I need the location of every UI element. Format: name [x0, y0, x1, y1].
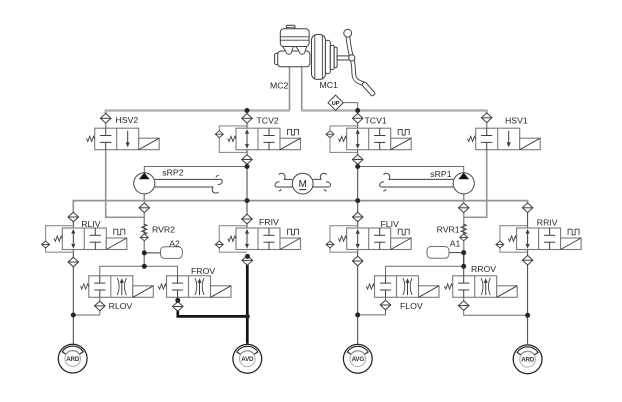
svg-text:M: M [299, 179, 307, 190]
svg-text:ARD: ARD [66, 356, 80, 363]
svg-text:RRIV: RRIV [537, 217, 558, 227]
svg-text:FLIV: FLIV [381, 219, 400, 229]
svg-text:AVG: AVG [352, 356, 365, 363]
svg-text:MC1: MC1 [320, 80, 339, 90]
svg-text:HSV2: HSV2 [116, 115, 139, 125]
svg-text:MC2: MC2 [270, 81, 289, 91]
svg-text:HSV1: HSV1 [505, 116, 528, 126]
svg-text:UP: UP [332, 101, 340, 107]
svg-text:AVD: AVD [241, 356, 254, 363]
svg-text:FRIV: FRIV [259, 217, 279, 227]
svg-text:A2: A2 [169, 239, 180, 249]
svg-text:RLIV: RLIV [81, 219, 101, 229]
svg-text:RROV: RROV [471, 264, 496, 274]
svg-text:sRP2: sRP2 [162, 167, 183, 177]
svg-text:FLOV: FLOV [400, 301, 423, 311]
svg-text:RVR1: RVR1 [437, 224, 460, 234]
svg-text:TCV1: TCV1 [365, 116, 387, 126]
svg-text:ARD: ARD [521, 357, 535, 364]
svg-text:TCV2: TCV2 [257, 116, 279, 126]
svg-text:sRP1: sRP1 [430, 169, 451, 179]
svg-text:A1: A1 [450, 238, 461, 248]
svg-text:FROV: FROV [191, 266, 215, 276]
svg-text:RVR2: RVR2 [152, 225, 175, 235]
svg-text:RLOV: RLOV [109, 301, 133, 311]
